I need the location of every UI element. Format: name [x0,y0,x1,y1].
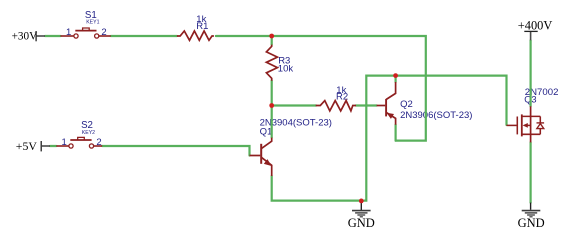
svg-text:Q1: Q1 [260,126,273,137]
svg-text:+400V: +400V [518,18,553,32]
svg-text:R1: R1 [196,21,208,32]
svg-text:Q2: Q2 [400,99,413,110]
svg-text:GND: GND [518,216,545,230]
svg-text:KEY2: KEY2 [82,130,95,136]
svg-text:2N3906(SOT-23): 2N3906(SOT-23) [400,110,472,121]
svg-text:KEY1: KEY1 [86,20,99,26]
svg-text:10k: 10k [278,64,294,75]
svg-text:GND: GND [348,216,375,230]
svg-text:+5V: +5V [16,139,38,153]
svg-text:+30V: +30V [12,31,38,43]
